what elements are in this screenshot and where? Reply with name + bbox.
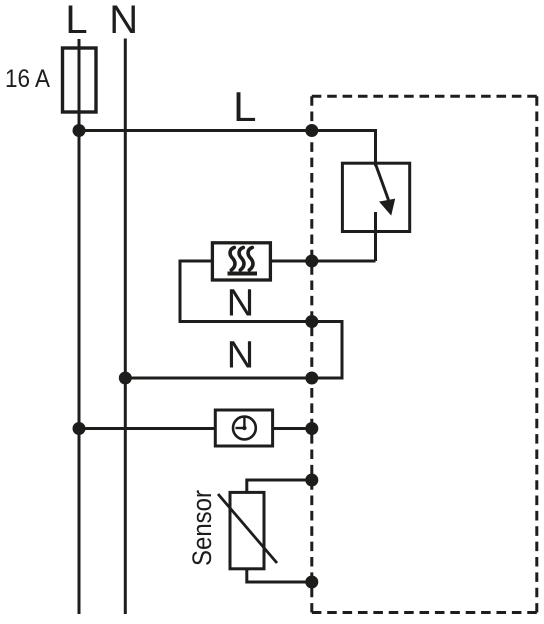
- fuse F1: [63, 48, 97, 112]
- wire internal N bridge: [312, 322, 342, 379]
- junction L top: [73, 124, 86, 137]
- terminal N1 on enclosure: [305, 315, 318, 328]
- wire N vertical: [124, 39, 127, 615]
- svg-text:N: N: [109, 0, 138, 42]
- svg-text:N: N: [227, 335, 254, 377]
- svg-text:L: L: [65, 0, 87, 42]
- relay switch contact: [342, 163, 409, 261]
- svg-text:N: N: [227, 283, 254, 325]
- sensor thermistor R1: [218, 492, 277, 568]
- wire N2 to neutral: [125, 377, 311, 380]
- terminal heater output on enclosure: [305, 255, 318, 268]
- svg-text:16 A: 16 A: [5, 65, 50, 93]
- wire L feed to relay: [79, 131, 376, 167]
- wire relay output to heater: [271, 260, 376, 263]
- terminal N2 on enclosure: [305, 372, 318, 385]
- wire heater return to N terminal: [180, 261, 312, 322]
- terminal sensor top on enclosure: [305, 474, 318, 487]
- terminal sensor bottom on enclosure: [305, 576, 318, 589]
- junction N: [119, 372, 132, 385]
- svg-text:Sensor: Sensor: [187, 490, 217, 566]
- wire timer to terminal: [273, 427, 312, 430]
- junction L timer tap: [73, 422, 86, 435]
- svg-text:L: L: [233, 83, 256, 130]
- wire sensor top: [247, 480, 312, 492]
- timer clock K1: [215, 410, 272, 446]
- heater load E1: [212, 243, 270, 280]
- terminal L on enclosure: [305, 124, 318, 137]
- thermostat enclosure outline (dashed): [312, 96, 537, 612]
- terminal timer on enclosure: [305, 422, 318, 435]
- wire L vertical: [78, 39, 81, 614]
- wire L to timer: [79, 427, 215, 430]
- wire sensor bottom: [247, 569, 312, 582]
